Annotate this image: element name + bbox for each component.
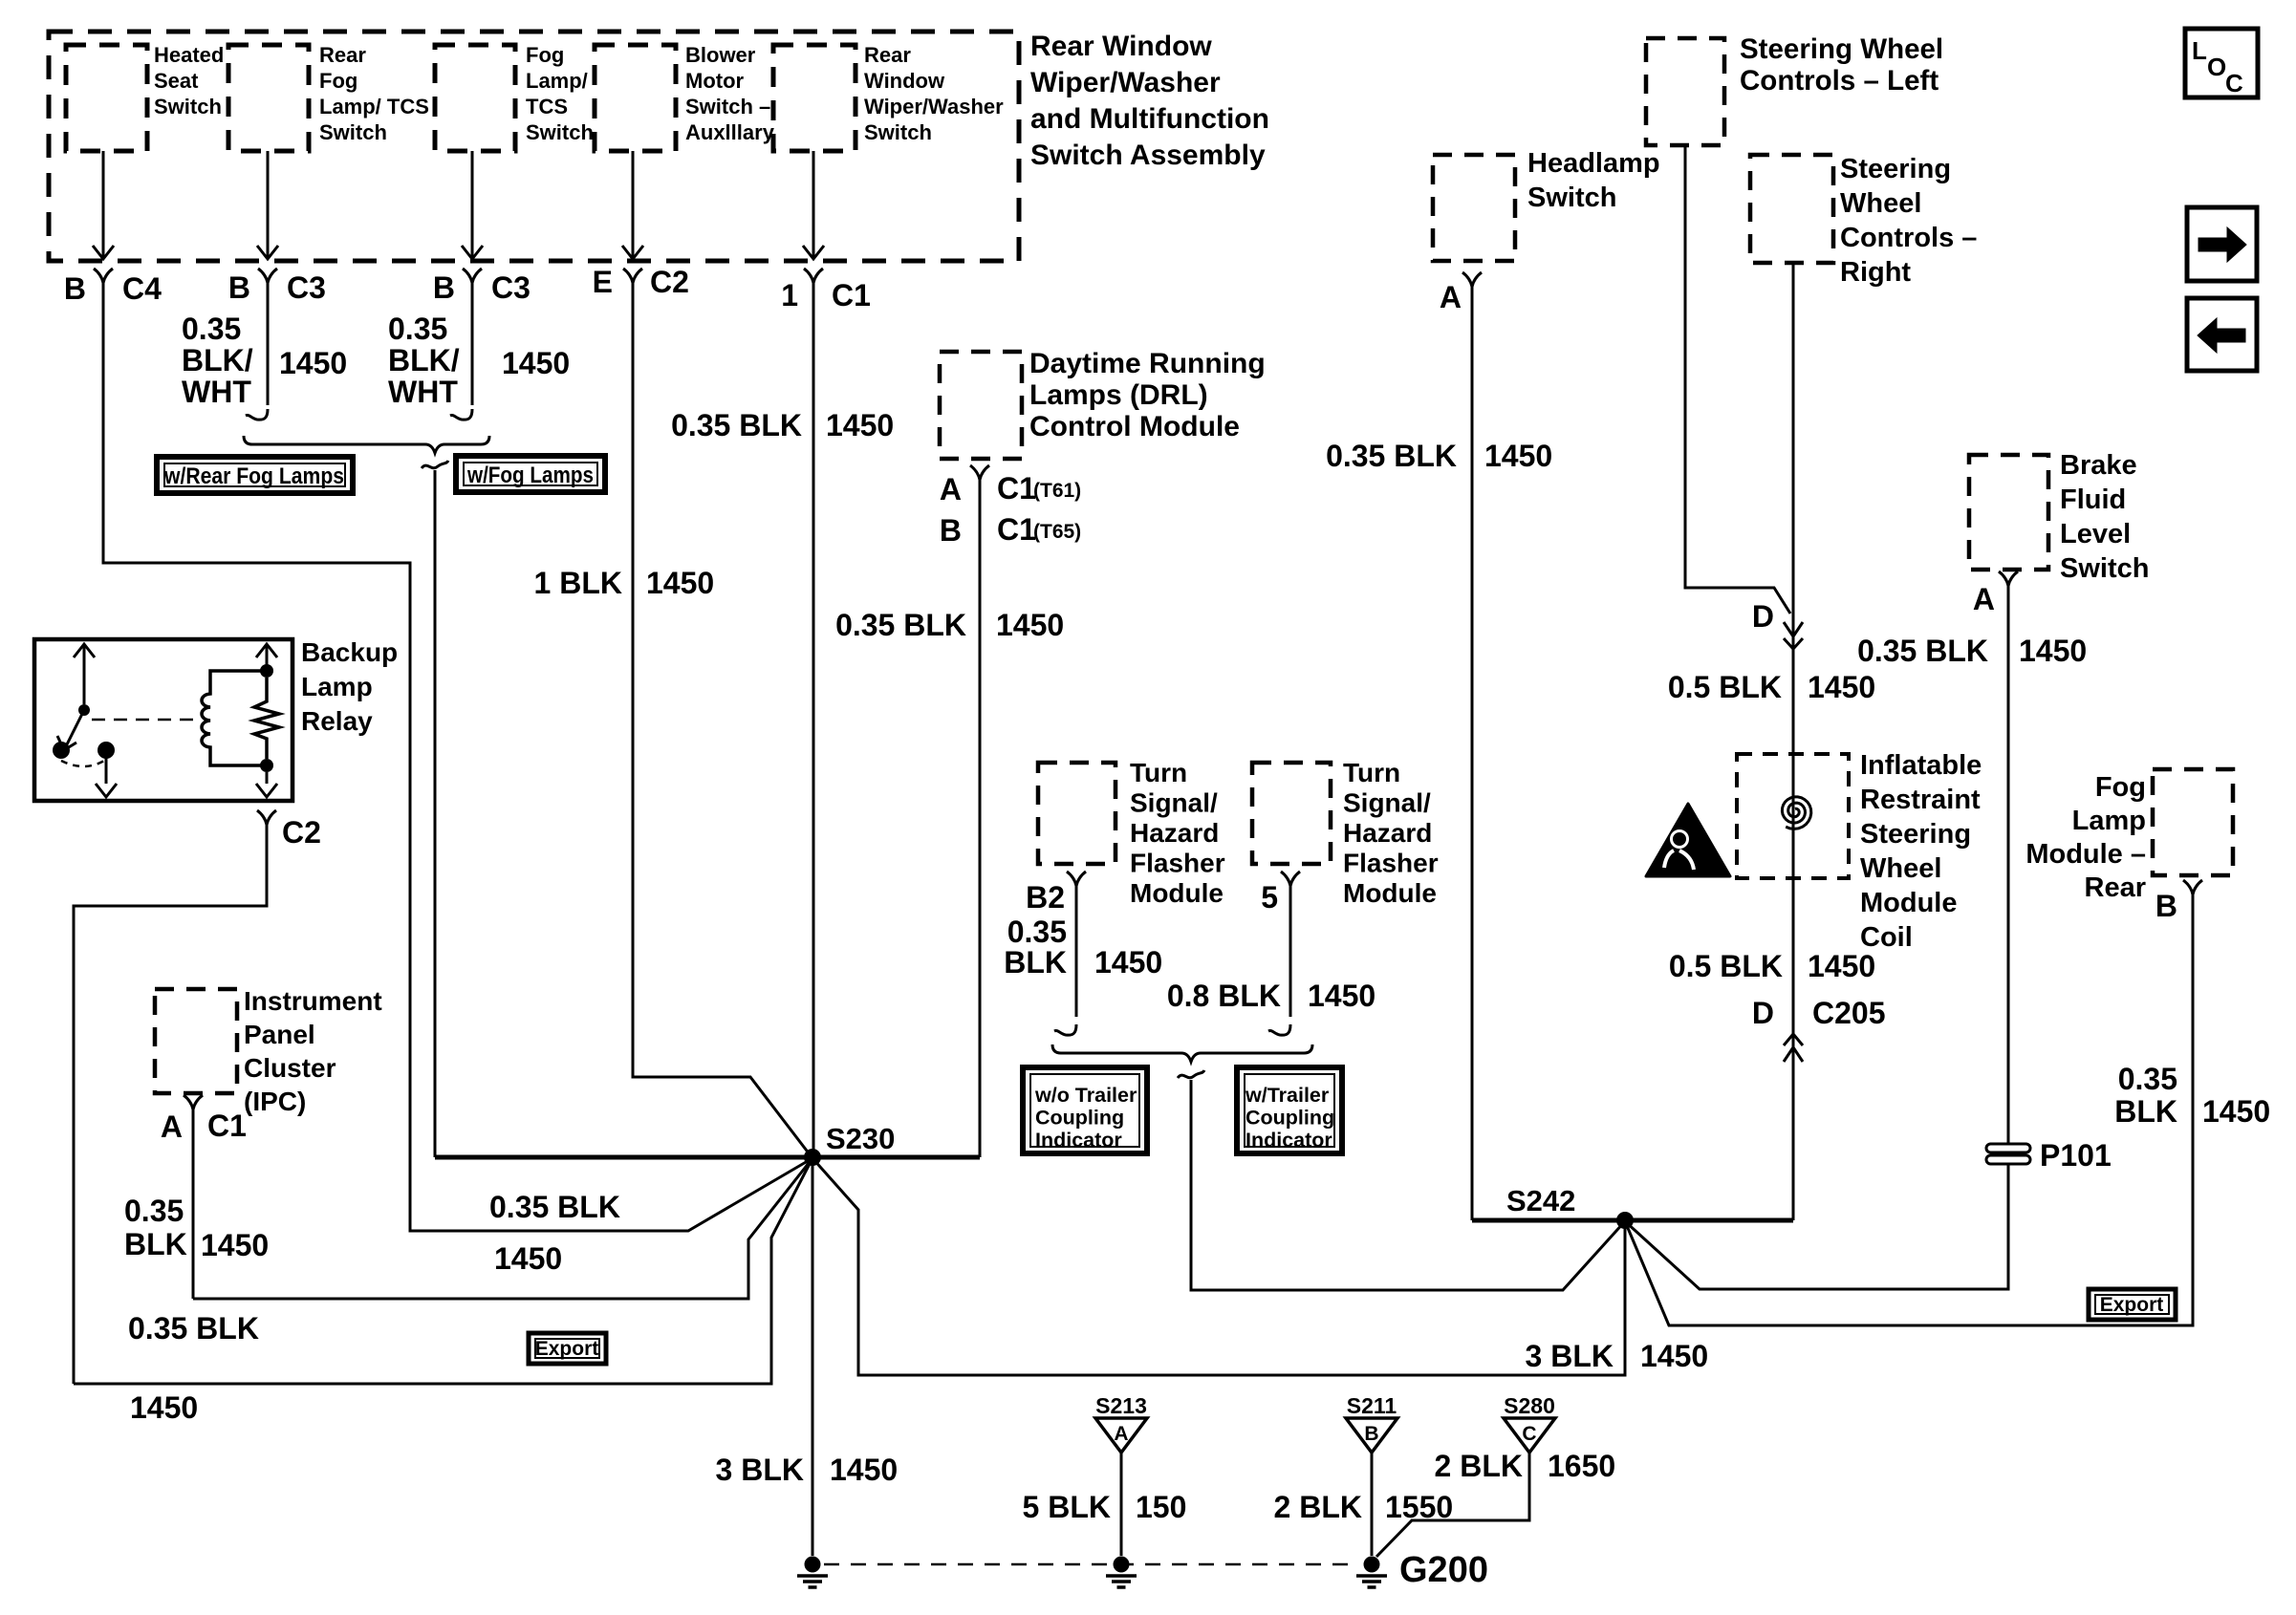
svg-text:C4: C4: [122, 271, 162, 306]
svg-text:Steering Wheel: Steering Wheel: [1740, 33, 1943, 65]
svg-text:3 BLK: 3 BLK: [1526, 1339, 1614, 1373]
svg-text:Signal/: Signal/: [1343, 788, 1431, 818]
svg-text:S211: S211: [1347, 1393, 1397, 1418]
svg-text:Module: Module: [1860, 888, 1958, 918]
wire: 0.8 BLK 1450 from flasher 2: [1289, 885, 1292, 1017]
svg-text:1450: 1450: [830, 1453, 898, 1487]
icon: arrow right box: [2187, 207, 2257, 281]
svg-text:S230: S230: [826, 1122, 895, 1155]
svg-text:Cluster: Cluster: [244, 1053, 336, 1083]
component: Rear Fog Lamp/TCS Switch (dashed box): [228, 45, 309, 151]
svg-text:150: 150: [1136, 1490, 1186, 1524]
svg-text:A: A: [1114, 1423, 1128, 1445]
wire: 1 BLK 1450 from blower motor switch to S230: [633, 283, 812, 1158]
ground triangle S280 (C): [1504, 1418, 1555, 1453]
splice S242: [1616, 1212, 1634, 1229]
svg-text:Window: Window: [864, 69, 945, 93]
relay dashed throw arc: [61, 761, 104, 766]
wire: flasher common to S242: [1191, 1080, 1625, 1290]
relay contact right: [97, 742, 115, 759]
connector fork B2: [1067, 872, 1086, 886]
svg-text:Panel: Panel: [244, 1020, 315, 1049]
svg-text:C1: C1: [997, 471, 1036, 506]
grommet P101: [1986, 1144, 2030, 1152]
svg-text:1 BLK: 1 BLK: [534, 566, 622, 600]
connector fork fog lamp B: [2183, 880, 2202, 894]
wire: 2 BLK 1650 from S280 to G200: [1376, 1453, 1529, 1557]
wire: 0.35 BLK 1450 from IPC to S230: [192, 1109, 195, 1299]
svg-text:1450: 1450: [996, 608, 1064, 642]
svg-text:L: L: [2192, 36, 2207, 65]
svg-text:Inflatable: Inflatable: [1860, 750, 1982, 781]
svg-text:C3: C3: [287, 270, 326, 305]
svg-text:1450: 1450: [502, 346, 570, 380]
svg-text:and Multifunction: and Multifunction: [1030, 103, 1269, 135]
svg-text:Controls – Left: Controls – Left: [1740, 65, 1939, 97]
svg-text:A: A: [940, 472, 962, 506]
svg-text:0.35 BLK: 0.35 BLK: [1857, 634, 1988, 668]
wire: 0.35 BLK/WHT 1450 from heated seat switch C4-B to S230: [103, 283, 812, 1231]
relay resistor branch arrows: [256, 644, 277, 657]
svg-text:0.8 BLK: 0.8 BLK: [1167, 979, 1281, 1013]
svg-text:Hazard: Hazard: [1343, 818, 1432, 848]
svg-text:BLK: BLK: [1004, 945, 1067, 980]
svg-text:Auxlllary: Auxlllary: [685, 120, 775, 144]
connector fork IPC A/C1: [184, 1095, 203, 1109]
svg-text:C205: C205: [1812, 996, 1886, 1030]
svg-text:Relay: Relay: [301, 706, 373, 736]
connector: C205 in-line connector symbol: [1784, 1034, 1803, 1045]
svg-text:Control Module: Control Module: [1029, 411, 1240, 442]
connector fork pin B of C3 (fog): [463, 269, 482, 283]
svg-text:P101: P101: [2040, 1138, 2112, 1173]
brace joining flasher grounds: [1052, 1044, 1312, 1062]
wire: switch 1 drop inside assembly: [102, 151, 105, 257]
svg-text:B: B: [228, 270, 250, 305]
svg-text:E: E: [593, 265, 613, 299]
svg-text:Module: Module: [1130, 878, 1224, 908]
component: Blower Motor Switch - Auxiliary (dashed box): [595, 45, 676, 151]
svg-text:Signal/: Signal/: [1130, 788, 1218, 818]
svg-text:(T61): (T61): [1033, 480, 1081, 502]
relay coil: [202, 671, 267, 765]
svg-text:Right: Right: [1840, 257, 1911, 288]
svg-text:2 BLK: 2 BLK: [1435, 1449, 1523, 1483]
svg-text:0.5 BLK: 0.5 BLK: [1669, 949, 1783, 983]
bus: S242 splice horizontal: [1472, 1218, 1793, 1223]
svg-text:A: A: [1973, 582, 1995, 616]
relay switch pivot: [78, 704, 90, 716]
svg-text:0.35 BLK: 0.35 BLK: [128, 1311, 259, 1346]
svg-text:0.35 BLK: 0.35 BLK: [1326, 439, 1457, 473]
svg-text:BLK/: BLK/: [388, 343, 460, 377]
svg-text:Switch Assembly: Switch Assembly: [1030, 140, 1266, 171]
relay junction dots: [260, 664, 273, 678]
svg-text:0.35: 0.35: [182, 312, 241, 346]
splice S230: [804, 1149, 821, 1166]
svg-text:Fog: Fog: [526, 43, 564, 67]
boxed note: w/Fog Lamps: [456, 456, 605, 492]
svg-text:B2: B2: [1026, 880, 1065, 915]
svg-text:Hazard: Hazard: [1130, 818, 1219, 848]
svg-text:Module –: Module –: [2025, 839, 2146, 870]
component: Headlamp Switch (dashed box): [1433, 155, 1515, 261]
svg-text:5 BLK: 5 BLK: [1023, 1490, 1111, 1524]
svg-text:Headlamp: Headlamp: [1527, 148, 1660, 179]
wire: 0.35 BLK 1450 from relay C2 to export leg: [74, 825, 267, 1384]
svg-text:Seat: Seat: [154, 69, 199, 93]
svg-text:Indicator: Indicator: [1245, 1129, 1332, 1152]
wire: S230 ground drop 3 BLK 1450: [812, 1157, 814, 1556]
relay switch common arrow: [74, 644, 95, 657]
svg-text:1450: 1450: [646, 566, 714, 600]
svg-text:Switch: Switch: [526, 120, 594, 144]
wire: SWC-left to D junction: [1685, 145, 1790, 614]
ground G200: [1364, 1557, 1380, 1573]
connector: D junction arrow: [1784, 622, 1803, 636]
svg-text:Rear: Rear: [864, 43, 911, 67]
svg-text:1450: 1450: [1640, 1339, 1708, 1373]
connector fork pin E of C2: [623, 269, 642, 283]
svg-text:1450: 1450: [1808, 670, 1875, 704]
svg-text:1: 1: [781, 278, 798, 312]
wire: 0.35 BLK 1450 from flasher 1: [1075, 885, 1078, 1017]
svg-text:S242: S242: [1506, 1184, 1575, 1217]
wire: 0.35 BLK 1450 brake fluid switch to S242 via P101: [2007, 585, 2010, 1143]
svg-text:w/Fog Lamps: w/Fog Lamps: [466, 463, 594, 488]
svg-text:C: C: [1522, 1423, 1536, 1445]
svg-text:Flasher: Flasher: [1130, 849, 1225, 878]
svg-text:w/Trailer: w/Trailer: [1245, 1084, 1330, 1107]
svg-text:Coupling: Coupling: [1035, 1107, 1124, 1130]
icon: LOC locator box: [2185, 29, 2258, 97]
component: Steering Wheel Controls - Left (dashed box): [1646, 38, 1724, 145]
svg-text:D: D: [1752, 996, 1774, 1030]
wire: 0.35 BLK 1450 headlamp switch to S242: [1471, 286, 1474, 1220]
wire: switch 2 drop inside assembly: [267, 151, 270, 257]
svg-text:Level: Level: [2060, 519, 2131, 549]
boxed note: Export (right): [2089, 1289, 2176, 1320]
svg-text:0.35: 0.35: [1007, 915, 1067, 949]
connector fork headlamp A: [1462, 272, 1482, 287]
svg-text:Switch –: Switch –: [685, 95, 770, 118]
svg-text:Brake: Brake: [2060, 450, 2137, 481]
ground: S230 drop ground: [805, 1557, 821, 1573]
svg-text:0.35: 0.35: [124, 1194, 184, 1228]
wire: 0.35 BLK/WHT 1450 from rear fog lamp/TCS switch: [267, 283, 270, 405]
svg-text:BLK/: BLK/: [182, 343, 253, 377]
svg-text:1450: 1450: [1484, 439, 1552, 473]
svg-text:Switch: Switch: [154, 95, 222, 118]
wire: 0.35 BLK 1450 fog lamp module to S242: [1625, 894, 2193, 1325]
svg-text:B: B: [940, 513, 962, 548]
relay resistor: [254, 678, 279, 759]
svg-text:Heated: Heated: [154, 43, 224, 67]
svg-text:Turn: Turn: [1343, 758, 1400, 787]
hook below brace: [422, 461, 448, 468]
svg-text:Instrument: Instrument: [244, 986, 382, 1016]
dashed ground tie line: [824, 1563, 1357, 1566]
component: Instrument Panel Cluster (dashed box): [155, 989, 237, 1093]
relay switch arm: [65, 710, 84, 748]
component: Fog Lamp Module - Rear (dashed box): [2153, 769, 2233, 875]
svg-text:Fluid: Fluid: [2060, 484, 2126, 515]
svg-text:1450: 1450: [279, 346, 347, 380]
svg-text:B: B: [2155, 889, 2177, 923]
svg-text:Steering: Steering: [1860, 819, 1971, 850]
svg-text:Export: Export: [535, 1338, 599, 1360]
svg-text:Lamp/: Lamp/: [526, 69, 588, 93]
connector fork pin B of C3 (rear fog): [258, 269, 277, 283]
svg-text:WHT: WHT: [182, 375, 251, 409]
svg-text:Wiper/Washer: Wiper/Washer: [1030, 67, 1221, 98]
svg-text:Module: Module: [1343, 878, 1437, 908]
svg-text:1450: 1450: [1808, 949, 1875, 983]
svg-text:1450: 1450: [1094, 945, 1162, 980]
svg-text:D: D: [1752, 599, 1774, 634]
svg-text:C1: C1: [832, 278, 871, 312]
svg-text:Switch: Switch: [2060, 553, 2149, 584]
svg-text:S213: S213: [1095, 1393, 1147, 1418]
svg-text:5: 5: [1261, 880, 1278, 915]
svg-text:Export: Export: [2100, 1294, 2164, 1316]
svg-text:1450: 1450: [130, 1390, 198, 1425]
svg-text:0.35: 0.35: [388, 312, 447, 346]
svg-text:BLK: BLK: [124, 1227, 187, 1261]
svg-text:Coupling: Coupling: [1245, 1107, 1334, 1130]
boxed note: w/Trailer Coupling Indicator: [1237, 1067, 1342, 1153]
svg-text:B: B: [433, 270, 455, 305]
wire: switch 3 drop inside assembly: [471, 151, 474, 257]
connector fork brake fluid A: [1999, 571, 2018, 586]
brace joining fog lamp grounds: [244, 436, 489, 453]
svg-text:1450: 1450: [2019, 634, 2087, 668]
svg-text:C2: C2: [650, 265, 689, 299]
svg-text:1450: 1450: [1308, 979, 1375, 1013]
svg-text:A: A: [161, 1109, 183, 1144]
ground: S213 leg ground: [1114, 1557, 1130, 1573]
connector fork relay C2: [257, 810, 276, 825]
icon: arrow left box: [2187, 298, 2257, 371]
component: Turn Signal/Hazard Flasher Module #2 (dashed box): [1252, 763, 1331, 864]
svg-text:Fog: Fog: [319, 69, 357, 93]
svg-text:1650: 1650: [1548, 1449, 1615, 1483]
svg-text:Restraint: Restraint: [1860, 785, 1981, 815]
svg-text:3 BLK: 3 BLK: [716, 1453, 804, 1487]
wire: fog-lamp brace common to S230 bus: [434, 470, 437, 1157]
wire: 0.35 BLK 1450 from DRL module to S230: [979, 479, 982, 1157]
svg-text:WHT: WHT: [388, 375, 458, 409]
relay contact left: [53, 742, 70, 759]
svg-text:1450: 1450: [826, 408, 894, 442]
svg-text:S280: S280: [1504, 1393, 1555, 1418]
svg-text:0.35 BLK: 0.35 BLK: [835, 608, 966, 642]
svg-text:Switch: Switch: [864, 120, 932, 144]
svg-text:Rear: Rear: [2085, 872, 2147, 903]
wire: 2 BLK 1550 from S211 to G200: [1371, 1453, 1374, 1556]
svg-text:Lamp: Lamp: [2072, 806, 2146, 836]
svg-text:G200: G200: [1399, 1550, 1488, 1590]
svg-text:2 BLK: 2 BLK: [1274, 1490, 1362, 1524]
component: Heated Seat Switch (dashed box): [66, 45, 147, 151]
component: Turn Signal/Hazard Flasher Module #1 (dashed box): [1038, 763, 1116, 864]
svg-text:Flasher: Flasher: [1343, 849, 1439, 878]
svg-text:Lamps (DRL): Lamps (DRL): [1029, 379, 1208, 411]
svg-text:Indicator: Indicator: [1035, 1129, 1122, 1152]
ground triangle S211 (B): [1346, 1418, 1397, 1453]
svg-text:C1: C1: [997, 512, 1036, 547]
wire: 0.35 BLK/WHT 1450 from fog lamp/TCS switch: [471, 283, 474, 405]
svg-text:O: O: [2207, 53, 2226, 81]
svg-text:1450: 1450: [494, 1241, 562, 1276]
svg-text:TCS: TCS: [526, 95, 568, 118]
svg-text:Daytime Running: Daytime Running: [1029, 348, 1266, 379]
rear window wiper/washer and multifunction switch assembly (dashed outline): [49, 32, 1019, 261]
svg-text:w/o Trailer: w/o Trailer: [1034, 1084, 1137, 1107]
connector fork pin 5: [1281, 872, 1300, 886]
relay dashed actuation link: [92, 719, 196, 721]
svg-text:Rear Window: Rear Window: [1030, 31, 1212, 62]
wire: switch 5 drop inside assembly: [812, 151, 815, 257]
boxed note: w/o Trailer Coupling Indicator: [1023, 1067, 1147, 1153]
svg-text:0.35 BLK: 0.35 BLK: [671, 408, 802, 442]
svg-text:(IPC): (IPC): [244, 1087, 306, 1116]
wire: 0.5 BLK 1450 SWC-right down through SRS coil: [1792, 263, 1795, 1220]
wire: IPC ground leg riser to S230: [193, 1158, 812, 1299]
svg-text:BLK: BLK: [2114, 1094, 2177, 1129]
svg-text:1450: 1450: [2202, 1094, 2270, 1129]
wire: S230 to S242 link (3 BLK 1450): [812, 1158, 1625, 1375]
svg-text:Rear: Rear: [319, 43, 366, 67]
boxed note: w/Rear Fog Lamps: [157, 457, 353, 493]
svg-text:Blower: Blower: [685, 43, 756, 67]
boxed note: Export (left): [529, 1333, 606, 1364]
svg-text:w/Rear Fog Lamps: w/Rear Fog Lamps: [163, 463, 344, 489]
svg-text:Lamp/ TCS: Lamp/ TCS: [319, 95, 429, 118]
svg-text:0.5 BLK: 0.5 BLK: [1668, 670, 1782, 704]
svg-text:0.35: 0.35: [2118, 1062, 2177, 1096]
svg-text:C3: C3: [491, 270, 531, 305]
svg-text:1450: 1450: [201, 1228, 269, 1262]
svg-text:C2: C2: [282, 815, 321, 850]
svg-text:Wheel: Wheel: [1840, 188, 1921, 219]
component: Inflatable Restraint Steering Wheel Module Coil (dashed box): [1737, 754, 1849, 878]
connector fork pin 1 of C1: [804, 269, 823, 283]
svg-text:Motor: Motor: [685, 69, 745, 93]
svg-text:Turn: Turn: [1130, 758, 1187, 787]
wire: export leg riser to S230: [74, 1158, 812, 1384]
svg-text:B: B: [1364, 1423, 1378, 1445]
svg-text:C: C: [2225, 69, 2243, 97]
svg-text:A: A: [1440, 280, 1462, 314]
SRS warning triangle icon: [1646, 804, 1730, 876]
svg-text:Wheel: Wheel: [1860, 853, 1941, 884]
bus: S230 splice horizontal: [435, 1155, 980, 1160]
svg-text:Backup: Backup: [301, 637, 398, 667]
SRS clockspring coil symbol: [1782, 797, 1810, 829]
wire: 0.35 BLK 1450 from wiper/washer switch to S230: [812, 283, 815, 1157]
svg-text:Wiper/Washer: Wiper/Washer: [864, 95, 1004, 118]
svg-text:B: B: [64, 271, 86, 306]
wire: switch 4 drop inside assembly: [632, 151, 635, 257]
ground triangle S213 (A): [1095, 1418, 1147, 1453]
svg-text:0.35 BLK: 0.35 BLK: [489, 1190, 620, 1224]
svg-text:C1: C1: [207, 1109, 247, 1143]
svg-text:Steering: Steering: [1840, 154, 1951, 184]
component: Daytime Running Lamps (DRL) Control Module (dashed box): [940, 352, 1022, 459]
svg-text:Switch: Switch: [319, 120, 387, 144]
component: Steering Wheel Controls - Right (dashed box): [1750, 155, 1833, 263]
component: Backup Lamp Relay (box): [34, 639, 292, 801]
svg-text:Controls –: Controls –: [1840, 223, 1977, 253]
svg-text:Fog: Fog: [2095, 772, 2146, 803]
wire: 5 BLK 150 from S213 to ground: [1120, 1453, 1123, 1556]
svg-text:Switch: Switch: [1527, 183, 1616, 213]
svg-text:Lamp: Lamp: [301, 672, 373, 701]
connector fork pin B of C4: [94, 269, 113, 283]
component: Fog Lamp/TCS Switch (dashed box): [435, 45, 515, 151]
component: Rear Window Wiper/Washer Switch (dashed box): [773, 45, 856, 151]
connector fork DRL: [970, 465, 989, 480]
hook below flasher brace: [1178, 1070, 1204, 1078]
component: Brake Fluid Level Switch (dashed box): [1969, 455, 2048, 570]
svg-text:(T65): (T65): [1033, 521, 1081, 543]
